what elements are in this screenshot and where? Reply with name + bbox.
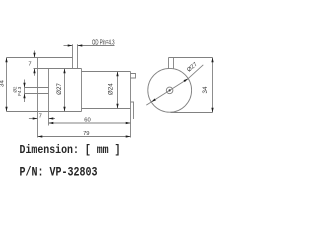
arrow diag upper-right: [184, 79, 189, 83]
arrow 79 right: [126, 135, 131, 137]
end view bottom extension: [171, 112, 213, 114]
end view shaft boss: [166, 87, 173, 94]
arrow 7T down: [33, 53, 35, 58]
wire motor bottom edge: [82, 108, 131, 110]
wire pump-motor joint: [81, 69, 83, 112]
arrow inlet down: [23, 83, 25, 88]
inlet tube top: [25, 87, 49, 89]
inlet tube bottom: [25, 93, 49, 95]
svg-text:Ø27: Ø27: [186, 62, 198, 74]
svg-text:79: 79: [83, 131, 89, 137]
arrow dia27 down: [63, 107, 65, 112]
arrow 34R up: [211, 58, 213, 63]
end view circle body: [148, 68, 192, 112]
arrow 34L up: [5, 58, 7, 63]
dim 79 line: [38, 136, 131, 138]
dim inlet tube line: [24, 80, 26, 103]
arrow outlet left: [78, 44, 83, 46]
arrow outlet right: [68, 44, 73, 46]
svg-text:OD Pin=4.3: OD Pin=4.3: [92, 40, 115, 47]
dim dia24 line: [117, 72, 119, 109]
svg-text:34: 34: [0, 80, 6, 87]
wire motor top edge: [82, 71, 131, 73]
svg-text:34: 34: [202, 86, 209, 93]
svg-text:F4.3: F4.3: [17, 86, 22, 96]
dim 7 top line: [34, 51, 36, 58]
wire pump head bottom edge + extension: [7, 111, 82, 113]
dim outlet tube line: [64, 45, 73, 47]
arrow 34R down: [211, 108, 213, 113]
arrow 60 right: [126, 122, 131, 124]
wire top edge + 34 extension: [7, 57, 73, 59]
dim dia27 diagonal line: [146, 79, 188, 106]
dim 34 left line: [6, 58, 8, 112]
terminal tab bottom rear: [131, 102, 134, 119]
svg-text:Ø27: Ø27: [56, 83, 63, 95]
arrow 7T up: [33, 69, 35, 74]
wire front section step: [48, 69, 50, 126]
arrow 7B right: [33, 117, 38, 119]
arrow dia24 down: [116, 104, 118, 109]
arrow 79 left: [38, 135, 43, 137]
arrow inlet up: [23, 94, 25, 99]
arrow dia24 up: [116, 72, 118, 77]
dim dia27 leader tail: [188, 65, 203, 79]
end view tab: [168, 58, 170, 69]
arrow diag lower-left: [151, 98, 156, 102]
dim 34 right line: [212, 58, 214, 113]
svg-text:60: 60: [84, 117, 90, 123]
wire pump front face: [37, 58, 39, 138]
dim 7 bottom line: [29, 118, 38, 120]
dim 60 line: [49, 122, 131, 124]
svg-text:7: 7: [28, 61, 31, 67]
arrow 7B left: [49, 117, 54, 119]
svg-text:Ø24: Ø24: [108, 83, 115, 95]
wire pump head top edge: [34, 68, 82, 70]
arrow dia27 up: [63, 69, 65, 74]
end view top extension: [169, 57, 213, 59]
svg-text:Dimension: [ mm ]: Dimension: [ mm ]: [20, 143, 121, 157]
svg-text:7: 7: [39, 114, 42, 120]
dim dia27 line: [64, 69, 66, 112]
outlet tube right: [77, 44, 79, 68]
terminal tab top rear: [131, 74, 136, 79]
svg-text:P/N: VP-32803: P/N: VP-32803: [20, 164, 98, 179]
wire motor rear face: [130, 72, 132, 138]
outlet tube left: [72, 44, 74, 68]
arrow 34L down: [5, 107, 7, 112]
arrow 60 left: [49, 122, 54, 124]
end view center dot: [169, 89, 171, 91]
